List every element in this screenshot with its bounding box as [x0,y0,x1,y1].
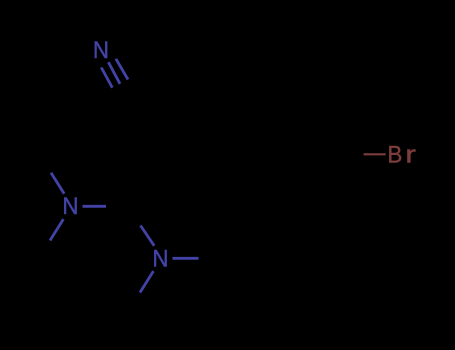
bond aryl carbon to Br (stub) [364,153,386,155]
svg-text:B: B [388,142,403,169]
bond N2 to central carbon (up-left stub) [141,226,155,246]
bond N2 to methyl (down-left stub) [140,271,153,292]
svg-text:N: N [62,193,78,220]
bond N1 to methyl (up-left stub) [51,173,64,194]
triple bond C#N (middle line) [108,62,120,84]
bond N1 to central carbon (right stub) [83,205,107,208]
svg-text:N: N [152,246,168,273]
svg-text:N: N [93,37,109,64]
bond N2 to methyl (right stub) [173,257,199,260]
svg-text:r: r [405,142,416,169]
triple bond C#N (right line) [116,59,128,80]
triple bond C#N (left line) [101,68,112,88]
bond N1 to methyl (down-left stub) [50,219,63,240]
